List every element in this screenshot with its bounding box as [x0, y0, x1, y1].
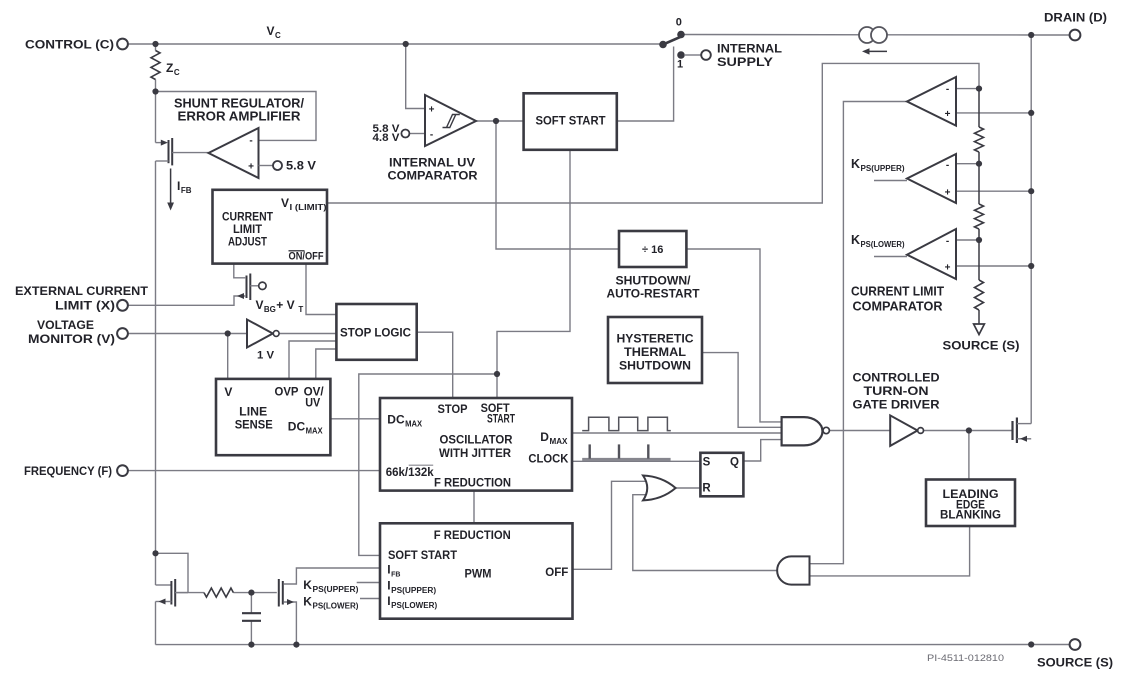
svg-text:OFF: OFF [545, 565, 568, 579]
svg-text:PS(LOWER): PS(LOWER) [312, 602, 358, 611]
svg-text:COMPARATOR: COMPARATOR [388, 169, 478, 183]
svg-text:DC: DC [288, 420, 306, 434]
svg-text:K: K [851, 157, 860, 171]
svg-text:MAX: MAX [306, 427, 324, 436]
svg-text:LIMIT (X): LIMIT (X) [55, 299, 115, 313]
svg-text:COMPARATOR: COMPARATOR [853, 299, 943, 313]
svg-text:+: + [945, 188, 951, 199]
svg-text:BLANKING: BLANKING [940, 508, 1001, 522]
svg-text:MONITOR (V): MONITOR (V) [28, 332, 115, 346]
svg-text:FREQUENCY (F): FREQUENCY (F) [24, 464, 112, 478]
svg-text:STOP LOGIC: STOP LOGIC [340, 326, 411, 340]
svg-text:PWM: PWM [465, 567, 492, 581]
svg-text:D: D [540, 430, 549, 444]
svg-text:HYSTERETIC: HYSTERETIC [617, 332, 694, 346]
svg-text:ON/OFF: ON/OFF [289, 251, 324, 263]
svg-text:SUPPLY: SUPPLY [717, 55, 773, 69]
svg-text:SHUTDOWN/: SHUTDOWN/ [616, 274, 692, 288]
svg-text:WITH JITTER: WITH JITTER [439, 446, 511, 460]
svg-text:V: V [224, 385, 232, 399]
svg-text:ERROR AMPLIFIER: ERROR AMPLIFIER [178, 110, 301, 124]
svg-text:SOFT START: SOFT START [388, 548, 458, 562]
svg-text:INTERNAL: INTERNAL [717, 42, 782, 56]
svg-text:S: S [703, 457, 711, 469]
svg-text:Z: Z [166, 61, 173, 75]
svg-text:MAX: MAX [549, 437, 568, 446]
svg-text:PS(UPPER): PS(UPPER) [391, 586, 436, 595]
svg-text:K: K [303, 594, 312, 608]
svg-text:+: + [945, 109, 951, 120]
svg-text:THERMAL: THERMAL [624, 345, 686, 359]
svg-text:MAX: MAX [405, 420, 423, 429]
svg-text:+: + [248, 161, 254, 172]
svg-text:BG: BG [264, 305, 276, 314]
svg-text:STOP: STOP [438, 402, 468, 416]
svg-text:TURN-ON: TURN-ON [864, 384, 929, 398]
svg-text:C: C [275, 31, 281, 40]
svg-text:T: T [298, 305, 303, 314]
svg-text:SOURCE (S): SOURCE (S) [1037, 656, 1113, 670]
svg-text:V: V [267, 24, 275, 38]
svg-text:5.8 V: 5.8 V [286, 159, 316, 173]
svg-text:4.8 V: 4.8 V [373, 132, 401, 144]
svg-text:DRAIN (D): DRAIN (D) [1044, 11, 1107, 25]
svg-text:-: - [946, 84, 949, 95]
svg-text:GATE DRIVER: GATE DRIVER [853, 398, 940, 412]
svg-text:CONTROL (C): CONTROL (C) [25, 38, 114, 52]
svg-text:PI-4511-012810: PI-4511-012810 [927, 653, 1004, 664]
svg-text:EXTERNAL CURRENT: EXTERNAL CURRENT [15, 284, 149, 298]
svg-text:I: I [177, 179, 180, 193]
svg-text:START: START [487, 412, 515, 426]
svg-text:PS(UPPER): PS(UPPER) [312, 585, 358, 594]
svg-text:SOFT START: SOFT START [536, 114, 607, 128]
svg-text:CLOCK: CLOCK [528, 452, 568, 466]
svg-text:÷ 16: ÷ 16 [642, 244, 663, 256]
svg-text:SHUTDOWN: SHUTDOWN [619, 359, 691, 373]
svg-text:ADJUST: ADJUST [228, 235, 268, 249]
svg-text:V: V [256, 298, 264, 312]
svg-text:FB: FB [391, 572, 400, 579]
svg-text:LINE: LINE [239, 404, 267, 418]
svg-text:SENSE: SENSE [235, 418, 273, 432]
svg-text:DC: DC [387, 413, 405, 427]
svg-text:F REDUCTION: F REDUCTION [434, 476, 511, 490]
svg-text:SOURCE (S): SOURCE (S) [943, 339, 1020, 353]
svg-text:K: K [303, 578, 312, 592]
svg-text:-: - [946, 160, 949, 171]
svg-text:1 V: 1 V [257, 350, 275, 362]
svg-text:-: - [249, 136, 252, 147]
svg-text:66k/132k: 66k/132k [386, 465, 434, 479]
svg-text:+ V: + V [276, 298, 294, 312]
svg-text:F REDUCTION: F REDUCTION [434, 528, 511, 542]
svg-text:I (LIMIT): I (LIMIT) [290, 203, 327, 212]
svg-text:-: - [946, 236, 949, 247]
svg-text:PS(UPPER): PS(UPPER) [861, 164, 905, 173]
svg-text:SHUNT REGULATOR/: SHUNT REGULATOR/ [174, 97, 305, 111]
svg-text:K: K [851, 233, 860, 247]
svg-text:+: + [945, 263, 951, 274]
svg-text:PS(LOWER): PS(LOWER) [861, 240, 905, 249]
svg-text:-: - [430, 130, 433, 141]
svg-text:+: + [429, 104, 435, 115]
svg-text:1: 1 [677, 59, 683, 71]
svg-text:VOLTAGE: VOLTAGE [37, 318, 94, 332]
svg-text:R: R [702, 483, 711, 495]
svg-text:OVP: OVP [275, 385, 299, 399]
svg-text:OSCILLATOR: OSCILLATOR [440, 433, 513, 447]
svg-text:AUTO-RESTART: AUTO-RESTART [607, 286, 701, 300]
svg-text:PS(LOWER): PS(LOWER) [391, 601, 437, 610]
svg-text:Q: Q [730, 457, 739, 469]
svg-text:INTERNAL UV: INTERNAL UV [389, 156, 475, 170]
svg-text:FB: FB [181, 186, 192, 195]
svg-text:0: 0 [676, 17, 682, 29]
svg-text:CURRENT LIMIT: CURRENT LIMIT [851, 284, 944, 298]
svg-text:UV: UV [305, 396, 320, 410]
svg-text:V: V [281, 196, 289, 210]
svg-text:C: C [174, 68, 180, 77]
svg-text:CONTROLLED: CONTROLLED [853, 371, 940, 385]
